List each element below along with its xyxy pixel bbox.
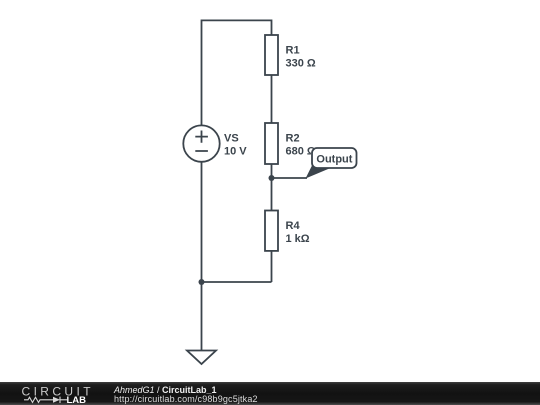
svg-text:LAB: LAB	[67, 395, 87, 405]
voltage source VS	[183, 125, 247, 161]
resistor R4	[265, 211, 310, 251]
wire R4 to bottom rail	[271, 251, 273, 282]
flag Output box	[312, 148, 357, 168]
wire VS bottom to bottom rail	[201, 162, 203, 282]
svg-text:330 Ω: 330 Ω	[286, 58, 316, 70]
node junction bottom rail	[199, 279, 205, 285]
wire output tap	[272, 177, 308, 179]
wire top loop: left rail up, top wire, down to R1	[202, 20, 272, 125]
resistor R2	[265, 123, 316, 164]
svg-text:Output: Output	[316, 154, 352, 166]
svg-text:1 kΩ: 1 kΩ	[286, 233, 310, 245]
wire R1 to R2	[271, 75, 273, 123]
CircuitLab logo	[0, 382, 100, 405]
svg-text:R4: R4	[286, 220, 301, 232]
wire ground stem	[201, 282, 203, 351]
footer bar	[0, 382, 540, 405]
flag Output tail	[306, 165, 330, 179]
wire R2 to R4 through node	[271, 164, 273, 211]
node junction between R2 and R4	[269, 175, 275, 181]
svg-text:R2: R2	[286, 133, 300, 145]
resistor R1	[265, 35, 316, 75]
ground	[187, 351, 216, 365]
svg-text:VS: VS	[224, 132, 239, 144]
wire bottom rail	[202, 281, 272, 283]
svg-text:R1: R1	[286, 45, 300, 57]
svg-text:10 V: 10 V	[224, 145, 247, 157]
